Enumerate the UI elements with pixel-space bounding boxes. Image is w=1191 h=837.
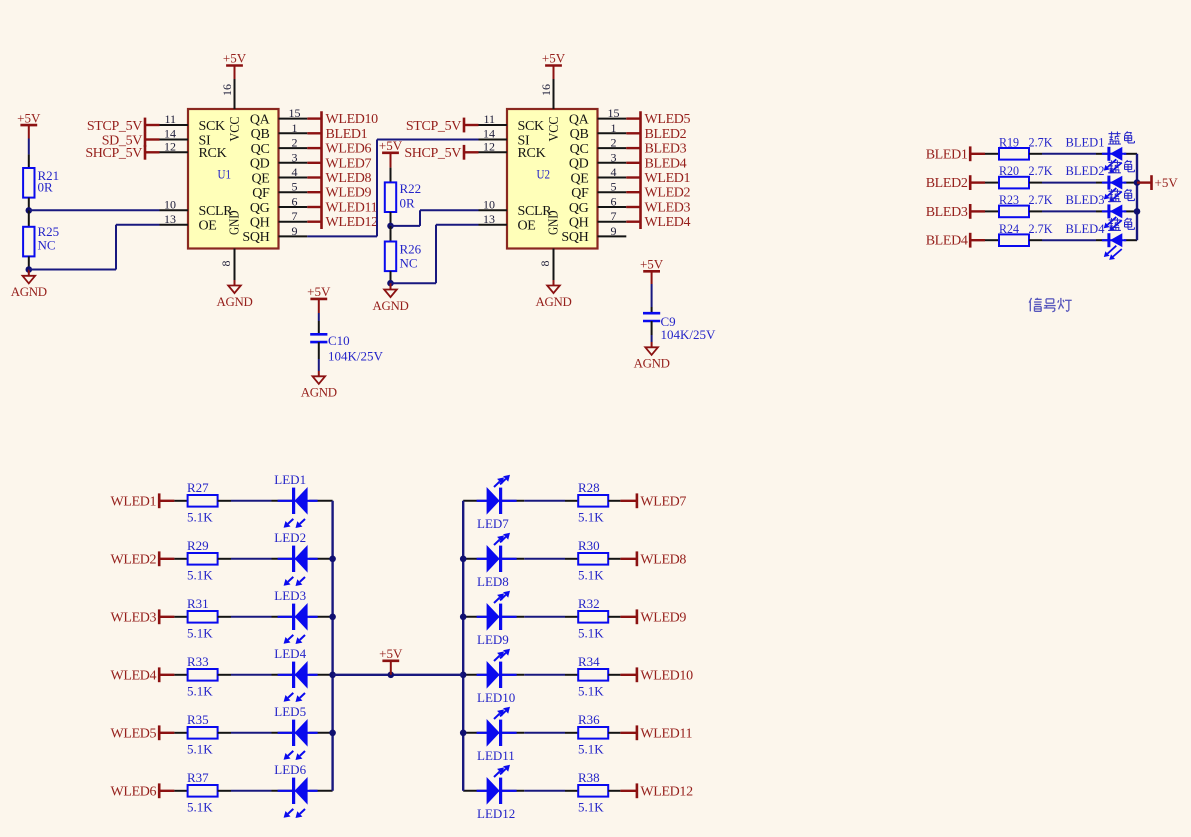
resistor R26 NC [390,226,392,242]
svg-text:AGND: AGND [634,357,670,371]
svg-text:SHCP_5V: SHCP_5V [85,146,142,161]
wire R25 bottom to U1 OE pin 13 [29,269,116,271]
svg-text:WLED6: WLED6 [111,784,157,799]
U2 pin 16 VCC [553,79,555,109]
svg-text:QD: QD [250,157,270,172]
svg-text:LED11: LED11 [477,748,515,763]
wire R26 bottom to U2 OE pin 13 [391,282,437,284]
svg-text:R34: R34 [578,654,600,669]
resistor R19 2.7K [985,153,999,155]
junction lamp bus row3 [1134,208,1141,215]
svg-text:5.1K: 5.1K [187,684,213,699]
net label WLED7 [307,162,321,164]
svg-text:WLED6: WLED6 [326,142,372,157]
svg-text:LED3: LED3 [274,588,306,603]
U1 pin 7 QH [279,221,308,223]
svg-text:R29: R29 [187,538,209,553]
resistor R27 5.1K [174,500,187,502]
net label BLED2 (lamp input) [969,175,972,190]
resistor R20 2.7K [985,182,999,184]
U1 pin 6 QG [279,206,308,208]
port bar right of U2 [639,111,642,229]
svg-text:7: 7 [611,209,617,223]
svg-text:WLED7: WLED7 [640,494,686,509]
U2 pin 8 GND [553,249,555,281]
wire R29 to LED2 [231,558,272,560]
junction left bus [329,614,336,621]
svg-text:LED10: LED10 [477,690,515,705]
wire LED11 to R36 [524,732,565,734]
resistor R36 5.1K [565,732,578,734]
net label WLED4 [626,220,640,222]
U1 pin 10 SCLR [160,209,189,211]
net label BLED3 (lamp input) [969,204,972,219]
svg-text:5.1K: 5.1K [578,684,604,699]
resistor R24 2.7K [985,239,999,241]
net label WLED2 [626,191,640,193]
svg-text:11: 11 [483,112,495,126]
svg-text:WLED8: WLED8 [326,171,372,186]
U2 pin 7 QH [598,221,627,223]
wire U1 SQH pin9 to U2 SI pin14 [307,235,377,237]
svg-text:WLED11: WLED11 [326,201,378,216]
U1 pin 8 GND [234,249,236,281]
svg-text:5: 5 [611,180,617,194]
U2 pin 3 QD [598,162,627,164]
LED BLED4 blue lamp [1096,239,1109,241]
svg-text:+5V: +5V [379,646,403,661]
svg-text:10: 10 [483,198,495,212]
wire R31 to LED3 [231,616,272,618]
svg-text:9: 9 [292,224,298,238]
LED LED12 [463,790,486,792]
U2 pin 12 RCK [479,151,508,153]
wire left anode bus [331,501,333,791]
U2 pin 11 SCK [479,124,508,126]
net label WLED12 [620,790,637,792]
svg-text:QH: QH [250,216,270,231]
svg-text:QB: QB [570,127,589,142]
svg-text:1: 1 [292,121,298,135]
wire R35 to LED5 [231,732,272,734]
wire +5V to C10 [318,313,320,321]
svg-text:5.1K: 5.1K [187,510,213,525]
svg-text:WLED12: WLED12 [326,215,379,230]
svg-text:16: 16 [539,84,553,96]
wire center +5V feed [333,674,464,676]
junction left bus [329,730,336,737]
svg-text:WLED4: WLED4 [111,668,157,683]
svg-text:2: 2 [292,136,298,150]
svg-text:WLED2: WLED2 [111,552,157,567]
power +5V center of LED array [390,661,392,675]
wire +5V bus of signal lamps [1136,154,1138,240]
svg-text:BLED3: BLED3 [926,205,968,220]
svg-text:+5V: +5V [542,51,566,66]
junction left bus [329,556,336,563]
wire LED10 to R34 [524,674,565,676]
ground AGND below U2 [553,280,555,286]
svg-text:16: 16 [220,84,234,96]
LED LED6 [272,790,294,792]
svg-text:BLED1: BLED1 [1066,134,1105,149]
wire C10 to AGND [318,359,320,371]
svg-text:U2: U2 [537,166,551,181]
label 蓝色 for BLED3 [1108,190,1120,192]
wire R37 to LED6 [231,790,272,792]
LED BLED2 blue lamp [1096,182,1109,184]
svg-text:R19: R19 [999,134,1019,149]
LED LED8 [463,558,486,560]
svg-text:13: 13 [164,212,176,226]
svg-text:QE: QE [251,171,269,186]
U2 pin 10 SCLR [479,209,508,211]
svg-text:5.1K: 5.1K [578,568,604,583]
junction R25 bottom [26,266,33,273]
svg-text:SCK: SCK [199,119,226,134]
svg-text:4: 4 [292,165,298,179]
svg-text:0R: 0R [38,180,54,195]
svg-text:AGND: AGND [301,386,337,400]
wire junction to U1 SCLR pin 10 [29,209,160,211]
svg-text:WLED10: WLED10 [326,112,379,127]
U2 pin 1 QB [598,132,627,134]
svg-text:BLED3: BLED3 [1066,192,1105,207]
LED LED2 [272,558,294,560]
svg-text:5.1K: 5.1K [578,742,604,757]
U1 pin 12 RCK [160,151,189,153]
junction right bus [460,556,467,563]
svg-text:QD: QD [569,157,589,172]
svg-text:QA: QA [250,112,271,127]
svg-text:R33: R33 [187,654,209,669]
svg-text:QB: QB [251,127,270,142]
ground AGND below R25 [28,270,30,276]
resistor R31 5.1K [174,616,187,618]
net label WLED5 [626,117,640,119]
svg-text:BLED1: BLED1 [326,127,368,142]
svg-text:WLED9: WLED9 [640,610,686,625]
resistor R34 5.1K [565,674,578,676]
net label BLED1 [307,132,321,134]
svg-text:R24: R24 [999,221,1019,236]
svg-text:5.1K: 5.1K [578,800,604,815]
net label WLED3 [626,206,640,208]
svg-text:5.1K: 5.1K [187,568,213,583]
net label SD_5V (U1) [144,132,147,147]
svg-text:15: 15 [608,106,620,120]
svg-text:6: 6 [611,195,617,209]
U1 pin 16 VCC [234,79,236,109]
svg-text:R35: R35 [187,712,209,727]
svg-text:LED5: LED5 [274,704,306,719]
svg-text:BLED4: BLED4 [645,156,687,171]
svg-text:11: 11 [164,112,176,126]
LED LED5 [272,732,294,734]
U1 pin 9 SQH [279,235,308,237]
resistor R37 5.1K [174,790,187,792]
svg-text:9: 9 [611,224,617,238]
wire LED8 to R30 [524,558,565,560]
capacitor C9 104K/25V [651,307,653,313]
svg-text:R37: R37 [187,770,209,785]
wire LED9 to R32 [524,616,565,618]
ground AGND below C10 [318,371,320,376]
svg-text:RCK: RCK [199,146,227,161]
svg-text:BLED2: BLED2 [1066,163,1105,178]
ground AGND below R26 [390,283,392,289]
resistor R33 5.1K [174,674,187,676]
resistor R30 5.1K [565,558,578,560]
power +5V right of lamp bus [1137,181,1152,183]
net label WLED11 [307,206,321,208]
svg-text:WLED2: WLED2 [645,186,691,201]
junction lamp bus row2 [1134,179,1141,186]
svg-text:104K/25V: 104K/25V [328,349,384,364]
svg-text:AGND: AGND [216,295,252,309]
svg-text:104K/25V: 104K/25V [661,327,717,342]
junction R26 bottom [387,280,394,287]
svg-text:AGND: AGND [11,285,47,299]
svg-text:2.7K: 2.7K [1029,221,1054,236]
svg-text:8: 8 [219,261,233,267]
wire junction to U2 SCLR pin 10 [391,225,421,227]
svg-text:QC: QC [570,142,589,157]
resistor R21 0R [28,154,30,168]
net label STCP_5V (U2) [463,118,466,133]
LED LED11 [463,732,486,734]
svg-text:BLED4: BLED4 [926,234,968,249]
svg-text:WLED1: WLED1 [645,171,691,186]
net label WLED4 [158,667,161,682]
resistor R28 5.1K [565,500,578,502]
wire R33 to LED4 [231,674,272,676]
svg-text:LED8: LED8 [477,574,509,589]
net label WLED6 [307,147,321,149]
label 蓝色 for BLED1 [1108,133,1120,135]
svg-text:LED6: LED6 [274,762,306,777]
resistor R25 NC [28,210,30,226]
junction +5V tap [388,672,395,679]
svg-text:5.1K: 5.1K [187,800,213,815]
net label WLED1 [626,176,640,178]
svg-text:QC: QC [251,142,270,157]
net label BLED4 [626,162,640,164]
wire LED7 to R28 [524,500,565,502]
junction R22/R26 [387,223,394,230]
wire right anode bus [462,501,464,791]
resistor R35 5.1K [174,732,187,734]
svg-text:5.1K: 5.1K [187,626,213,641]
U2 pin 9 SQH [598,235,627,237]
svg-text:+5V: +5V [223,51,247,66]
svg-text:LED12: LED12 [477,806,515,821]
svg-text:SCK: SCK [518,119,545,134]
svg-text:R30: R30 [578,538,600,553]
svg-text:WLED3: WLED3 [111,610,157,625]
svg-text:+5V: +5V [17,110,41,125]
U2 pin 15 QA [598,118,627,120]
net label BLED3 [626,147,640,149]
svg-text:2.7K: 2.7K [1029,134,1054,149]
svg-text:2.7K: 2.7K [1029,163,1054,178]
svg-text:5.1K: 5.1K [578,510,604,525]
svg-text:WLED5: WLED5 [111,726,157,741]
net label WLED8 [620,558,637,560]
svg-text:R36: R36 [578,712,600,727]
svg-text:BLED3: BLED3 [645,142,687,157]
svg-text:LED2: LED2 [274,530,306,545]
net label WLED8 [307,176,321,178]
svg-text:LED9: LED9 [477,632,509,647]
net label WLED7 [620,500,637,502]
U1 pin 2 QC [279,147,308,149]
svg-text:QH: QH [569,216,589,231]
junction right bus [460,672,467,679]
svg-text:R38: R38 [578,770,600,785]
svg-text:+5V: +5V [1155,175,1179,190]
LED BLED1 blue lamp [1096,153,1109,155]
svg-text:10: 10 [164,198,176,212]
U1 pin 11 SCK [160,124,189,126]
svg-text:VCC: VCC [547,117,562,142]
svg-text:7: 7 [292,209,298,223]
net label BLED2 [626,132,640,134]
wire R20 to LEDBLED2 [1042,182,1096,184]
U2 pin 13 OE [479,224,508,226]
resistor R38 5.1K [565,790,578,792]
svg-text:SQH: SQH [242,230,269,245]
svg-text:R22: R22 [400,181,422,196]
svg-text:6: 6 [292,195,298,209]
svg-text:2: 2 [611,136,617,150]
label 蓝色 for BLED4 [1108,219,1120,221]
svg-text:SQH: SQH [561,230,588,245]
net label WLED11 [620,732,637,734]
svg-text:SCLR: SCLR [518,204,553,219]
wire +5V to R21 [28,139,30,155]
wire R19 to LEDBLED1 [1042,153,1096,155]
svg-text:5.1K: 5.1K [578,626,604,641]
IC U1 body [188,109,279,249]
svg-text:R32: R32 [578,596,600,611]
U2 pin 14 SI [479,139,508,141]
svg-text:RCK: RCK [518,146,546,161]
svg-text:BLED2: BLED2 [926,176,968,191]
svg-text:WLED1: WLED1 [111,494,157,509]
svg-text:AGND: AGND [372,299,408,313]
wire R24 to LEDBLED4 [1042,239,1096,241]
net label WLED10 [620,674,637,676]
svg-text:WLED5: WLED5 [645,112,691,127]
LED LED3 [272,616,294,618]
U1 pin 4 QE [279,177,308,179]
svg-text:LED1: LED1 [274,472,306,487]
junction right bus [460,614,467,621]
net label SHCP_5V (U2) [463,145,466,160]
svg-text:WLED11: WLED11 [640,726,692,741]
svg-text:NC: NC [400,256,418,271]
resistor R29 5.1K [174,558,187,560]
U1 pin 5 QF [279,191,308,193]
IC U2 body [507,109,598,249]
LED LED1 [272,500,294,502]
LED LED9 [463,616,486,618]
net label WLED1 [158,493,161,508]
net label WLED6 [158,783,161,798]
svg-text:R31: R31 [187,596,209,611]
svg-text:12: 12 [483,140,495,154]
net label STCP_5V (U1) [144,118,147,133]
wire R27 to LED1 [231,500,272,502]
svg-text:15: 15 [289,106,301,120]
net label BLED1 (lamp input) [969,146,972,161]
resistor R22 0R [390,168,392,183]
junction left bus [329,672,336,679]
LED LED4 [272,674,294,676]
svg-text:QF: QF [571,186,589,201]
U1 pin 1 QB [279,132,308,134]
svg-text:STCP_5V: STCP_5V [406,119,461,134]
svg-text:1: 1 [611,121,617,135]
svg-text:QA: QA [569,112,590,127]
svg-text:QG: QG [569,201,589,216]
wire R23 to LEDBLED3 [1042,210,1096,212]
U2 pin 4 QE [598,177,627,179]
svg-text:AGND: AGND [535,295,571,309]
U1 pin 13 OE [160,224,189,226]
svg-text:NC: NC [38,237,56,252]
svg-text:R26: R26 [400,242,422,257]
svg-text:OE: OE [518,219,536,234]
svg-text:WLED3: WLED3 [645,201,691,216]
ground AGND below C9 [651,342,653,347]
LED LED7 [463,500,486,502]
net label WLED9 [620,616,637,618]
svg-text:R20: R20 [999,163,1019,178]
LED BLED3 blue lamp [1096,210,1109,212]
svg-text:WLED8: WLED8 [640,552,686,567]
wire +5V to C9 [651,284,653,307]
wire C9 to AGND [651,335,653,342]
svg-text:SHCP_5V: SHCP_5V [404,146,461,161]
svg-text:BLED1: BLED1 [926,147,968,162]
svg-text:8: 8 [538,261,552,267]
capacitor C10 104K/25V [318,321,320,334]
svg-text:WLED9: WLED9 [326,186,372,201]
svg-text:0R: 0R [400,195,416,210]
svg-text:R27: R27 [187,480,209,495]
svg-text:5: 5 [292,180,298,194]
label 信号灯 (signal lamp) [1029,298,1031,303]
svg-text:WLED12: WLED12 [640,784,693,799]
junction R21/R25 [26,207,33,214]
svg-text:3: 3 [611,150,617,164]
svg-text:3: 3 [292,150,298,164]
net label WLED9 [307,191,321,193]
wire LED12 to R38 [524,790,565,792]
svg-text:LED4: LED4 [274,646,306,661]
svg-text:QF: QF [252,186,270,201]
U2 pin 6 QG [598,206,627,208]
ground AGND below U1 [234,280,236,286]
resistor R32 5.1K [565,616,578,618]
svg-text:WLED4: WLED4 [645,215,691,230]
svg-text:13: 13 [483,212,495,226]
net label WLED12 [307,220,321,222]
svg-text:WLED10: WLED10 [640,668,693,683]
svg-text:4: 4 [611,165,617,179]
